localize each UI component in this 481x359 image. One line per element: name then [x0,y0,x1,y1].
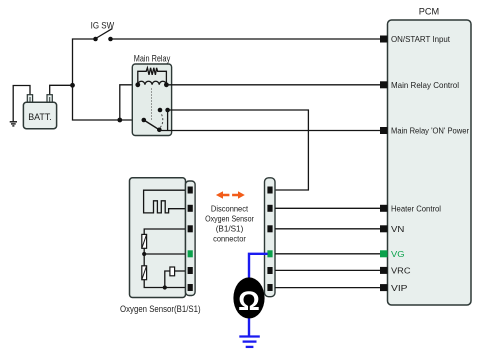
svg-text:Main Relay: Main Relay [134,54,171,64]
wire battery negative to ground [13,86,30,122]
svg-text:BATT.: BATT. [28,112,52,122]
svg-text:Heater Control: Heater Control [391,204,441,214]
switch IG SW [91,20,115,41]
svg-text:VG: VG [391,249,405,259]
wire mid tap to VG pin [144,253,185,255]
node coil feed junction [117,118,122,123]
node sensor bottom tap [163,285,167,289]
svg-text:PCM: PCM [419,7,439,17]
svg-text:ON/START Input: ON/START Input [391,34,451,44]
connector sensor side [186,181,196,296]
wire junction up to relay coil [120,85,138,120]
oxygen sensor B1/S1 box [120,178,201,314]
wire VG [275,253,381,255]
coil relay [135,81,168,87]
sensor element upper [142,229,186,254]
wire junction down to relay common [73,85,144,120]
PCM pins [380,36,388,292]
ohmmeter M1 [233,277,264,318]
svg-text:Main Relay Control: Main Relay Control [391,80,459,90]
wire relay output to Main Relay ON Power [159,130,381,132]
ground meter [239,337,259,347]
wire VRC [275,269,381,271]
wire relay NO contact to connector [168,110,309,190]
svg-text:Oxygen Sensor: Oxygen Sensor [205,214,254,224]
PCM U1 [388,7,472,305]
wire meter to ground blue [248,318,250,335]
svg-text:VN: VN [391,224,404,234]
wire IG SW to ON/START Input [111,38,382,40]
heater element [144,190,186,213]
svg-text:Main Relay 'ON' Power: Main Relay 'ON' Power [391,126,469,136]
resistor relay suppression [138,68,167,85]
svg-text:Disconnect: Disconnect [211,204,249,214]
svg-text:VIP: VIP [391,283,408,293]
resistor sensor trim [165,267,186,288]
svg-text:VRC: VRC [391,266,411,276]
wire actuator dotted [151,89,153,122]
wire relay coil to Main Relay Control [166,84,381,86]
relay switch contacts [142,108,170,132]
arrows disconnect [216,191,245,199]
wire left of IG SW [73,39,96,85]
wire VN [275,228,381,230]
sensor element lower [142,254,186,288]
connector harness side [265,178,276,297]
battery BATT [23,95,56,129]
node sensor mid tap [142,252,146,256]
svg-text:(B1/S1): (B1/S1) [216,224,244,234]
svg-text:connector: connector [213,234,246,244]
svg-text:Ω: Ω [238,286,260,316]
svg-text:Oxygen Sensor(B1/S1): Oxygen Sensor(B1/S1) [120,304,201,314]
wire meter probe blue [249,254,268,278]
relay K1 Main Relay [132,54,171,136]
note disconnect text [205,204,254,244]
ground battery [10,122,17,126]
wire VIP [275,287,381,289]
wire Heater Control [275,207,381,209]
node battery junction [70,83,75,88]
wire battery positive to junction [50,85,73,95]
